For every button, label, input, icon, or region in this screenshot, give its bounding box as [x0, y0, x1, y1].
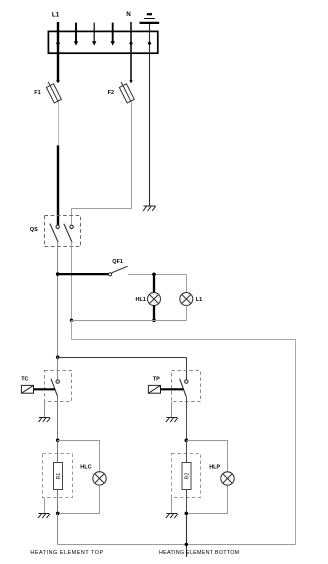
breaker QF1 blade: [112, 266, 128, 273]
svg-text:HEATING ELEMENT BOTTOM: HEATING ELEMENT BOTTOM: [159, 550, 240, 556]
svg-text:F2: F2: [108, 90, 114, 96]
wire HLC branch top: [58, 441, 100, 472]
wire phase stub 3: [93, 23, 95, 42]
svg-text:QS: QS: [30, 227, 38, 233]
node junction heater1 bottom: [56, 512, 60, 516]
thermostat TC enclosure: [45, 371, 72, 402]
heater 1 enclosure: [43, 454, 73, 498]
wire HLP branch top: [187, 441, 228, 472]
node diamond on PE in block: [148, 41, 152, 46]
wire F1 to QS thick: [57, 145, 59, 225]
node junction HL1 bottom: [152, 319, 156, 323]
svg-text:HLC: HLC: [80, 464, 91, 470]
breaker QF1 contact circle: [109, 273, 112, 276]
node junction heater feed split: [56, 356, 60, 360]
terminal block: [48, 31, 157, 53]
svg-text:R1: R1: [56, 473, 62, 480]
arrowhead stub 2: [74, 41, 78, 45]
lamp HL1: [148, 293, 161, 306]
wire into R1: [57, 441, 59, 463]
node junction heater2 top: [185, 439, 189, 443]
arrowhead stub 3: [92, 41, 96, 45]
wire phase stub 4: [112, 23, 114, 42]
wire TP to heater: [186, 397, 188, 441]
node arrow at F2 top: [129, 80, 133, 83]
earth heater2: [166, 514, 178, 519]
wire out of R2: [186, 490, 188, 514]
wire N into block: [130, 22, 132, 81]
svg-text:HL1: HL1: [136, 297, 146, 303]
QS pole 2 contact circle: [70, 225, 73, 228]
TC sensor bulb: [21, 385, 33, 393]
node arrow at F1 top: [56, 80, 60, 83]
resistor R1: [54, 463, 63, 490]
thermostat TP enclosure: [172, 371, 201, 402]
node junction QF1 feed: [56, 272, 60, 276]
wire N return long run: [72, 321, 296, 545]
svg-text:L1: L1: [196, 297, 202, 303]
wire QS pole1 down: [57, 242, 59, 357]
earth PE bottom: [143, 206, 156, 211]
lamp L1: [180, 293, 193, 306]
wire HLP branch bottom: [187, 485, 228, 513]
TP contact circle: [185, 380, 188, 383]
wire to lamp L1: [186, 275, 188, 293]
QS pole 1 contact circle: [56, 225, 59, 228]
wire phase stub 2: [75, 23, 77, 42]
wire heater2 to rail with overshoot: [186, 514, 188, 558]
svg-text:F1: F1: [34, 90, 40, 96]
PE terminal symbol: [140, 14, 160, 23]
switch QS enclosure: [45, 216, 81, 247]
fuse F2: [108, 82, 135, 103]
lamp HLC: [93, 472, 106, 485]
node junction heater1 top: [56, 439, 60, 443]
wire below F2: [72, 102, 132, 226]
svg-text:N: N: [126, 11, 131, 18]
heater2 frame stub: [171, 498, 173, 514]
wire L1 phase into block: [57, 22, 59, 82]
earth TP: [166, 418, 178, 423]
TP actuator link thick: [161, 388, 184, 390]
TC blade: [51, 379, 58, 397]
wire thick to QF1: [58, 273, 109, 275]
wire to TC: [57, 358, 59, 381]
TP sensor bulb: [148, 385, 160, 393]
TC contact circle: [56, 380, 59, 383]
TP blade: [180, 379, 187, 397]
earth TC: [39, 418, 51, 423]
wire HL1 bottom thick: [153, 306, 155, 321]
node junction heater2 bottom: [185, 512, 189, 516]
fuse F1: [34, 82, 61, 103]
svg-text:QF1: QF1: [112, 259, 123, 265]
wire heater1 to rail: [57, 514, 59, 545]
QS pole 2 blade: [64, 224, 72, 243]
resistor R2: [182, 463, 191, 490]
wire lamp bottom rail: [72, 320, 187, 322]
TC frame pin stub: [44, 402, 46, 418]
wire out of R1: [57, 490, 59, 514]
wire into R2: [186, 441, 188, 463]
wire below F1 light: [58, 102, 60, 146]
wire branch to TP: [58, 358, 187, 381]
node junction HL1 top: [152, 273, 156, 277]
svg-text:L1: L1: [52, 12, 60, 19]
TC actuator link thick: [34, 388, 55, 390]
heater 2 enclosure: [172, 454, 201, 498]
svg-text:HEATING ELEMENT TOP: HEATING ELEMENT TOP: [30, 550, 103, 556]
node diamond on L1 in block: [56, 41, 60, 46]
node junction lamp rail left: [70, 319, 73, 322]
wire HLC branch bottom: [58, 485, 100, 513]
wire lamp L1 bottom: [186, 306, 188, 321]
arrowhead stub 4: [111, 41, 115, 45]
node diamond on N in block: [129, 41, 133, 46]
wire QS pole2 down: [71, 242, 73, 320]
wire QF1 to lamps: [128, 274, 187, 276]
svg-text:R2: R2: [185, 473, 191, 480]
svg-text:TP: TP: [153, 376, 160, 382]
wire TC to heater: [57, 397, 59, 441]
wire PE down right side: [149, 24, 151, 206]
svg-text:TC: TC: [21, 376, 28, 382]
QS pole 1 blade: [50, 224, 58, 243]
TP frame pin stub: [171, 402, 173, 418]
svg-text:HLP: HLP: [209, 464, 220, 470]
lamp HLP: [221, 472, 234, 485]
wire HL1 top thick: [153, 274, 155, 292]
node junction rail TP: [185, 543, 188, 546]
earth heater1: [38, 514, 50, 519]
wire bottom rail: [58, 544, 296, 546]
heater1 frame stub: [44, 498, 46, 514]
